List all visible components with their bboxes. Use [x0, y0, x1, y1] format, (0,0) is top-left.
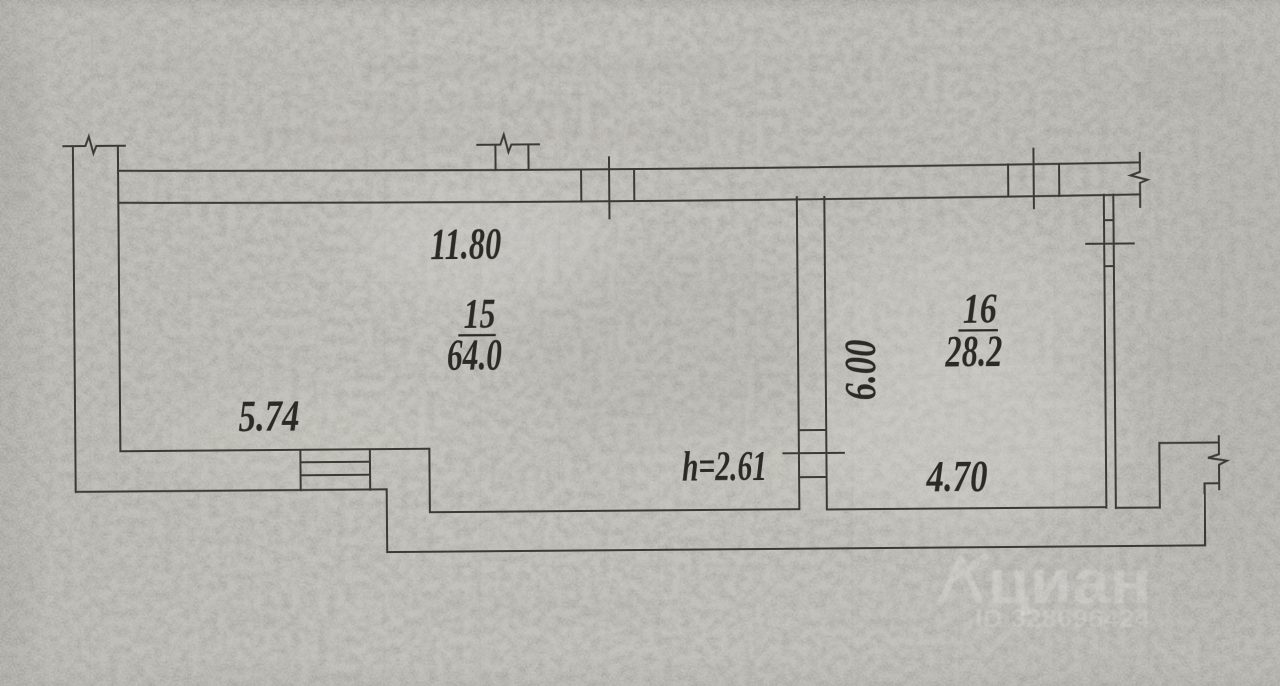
interior opening lower jamb [799, 476, 826, 478]
stair tread 2 [301, 474, 370, 477]
notch step edge [1205, 482, 1219, 484]
top wall inner edge [118, 194, 1140, 205]
window W1 right jamb [633, 169, 635, 201]
stair left edge [299, 450, 301, 490]
interior opening upper jamb [799, 429, 826, 431]
svg-text:28.2: 28.2 [944, 327, 1002, 376]
right window center line [1086, 242, 1133, 244]
room 16 bottom inner wall [827, 507, 1106, 509]
bottom outer wall main [387, 545, 1205, 552]
bottom-right notch lower edge [1116, 507, 1160, 509]
stub tick left [494, 145, 496, 170]
room 16 right wall inner line [1104, 195, 1107, 508]
stair right edge [369, 449, 371, 489]
bottom outer wall left [76, 489, 387, 492]
right break stub with zigzag [1208, 436, 1227, 489]
interior wall right line [824, 197, 827, 509]
window W2 left jamb [1007, 164, 1009, 196]
floor plan drawing (slightly rotated as in photo) [63, 127, 1227, 555]
interior wall left line [797, 197, 800, 509]
svg-text:4.70: 4.70 [926, 451, 988, 501]
notch outer riser [1204, 483, 1207, 545]
room 16 right wall outer line [1113, 195, 1116, 508]
top wall outer edge [118, 162, 1140, 173]
room 15 lower inner wall [430, 509, 799, 512]
svg-text:64.0: 64.0 [447, 330, 502, 379]
svg-text:11.80: 11.80 [430, 219, 501, 269]
window W2 right jamb [1058, 164, 1060, 196]
window W1 center line [608, 157, 611, 218]
room 15 bottom step wall [428, 449, 431, 512]
svg-text:5.74: 5.74 [238, 391, 299, 440]
right outer wall stub with zigzag [1130, 153, 1147, 207]
room 15 left wall / tick [118, 146, 121, 451]
room 15 bottom inner wall [120, 449, 429, 452]
notch right riser [1158, 443, 1161, 507]
svg-text:6.00: 6.00 [835, 339, 884, 400]
left outer wall [73, 146, 76, 492]
interior opening center line [783, 452, 843, 454]
fraction line room 16 [958, 329, 997, 332]
notch top edge [1159, 442, 1218, 444]
lighting variation [150, 30, 1280, 590]
right window lower jamb [1104, 265, 1113, 267]
stub tick right [527, 144, 529, 169]
svg-text:ID 328696424: ID 328696424 [975, 605, 1150, 633]
right window upper jamb [1104, 219, 1113, 221]
bottom outer step [386, 489, 389, 552]
svg-text:h=2.61: h=2.61 [682, 444, 767, 491]
stair tread 1 [300, 461, 369, 464]
wall break stub top-left with zigzag [63, 136, 125, 154]
wall break stub top-middle with zigzag [477, 134, 539, 152]
window W2 center line [1032, 149, 1034, 208]
watermark logo mark [941, 557, 985, 602]
fraction line room 15 [458, 334, 495, 337]
window W1 left jamb [580, 170, 582, 202]
